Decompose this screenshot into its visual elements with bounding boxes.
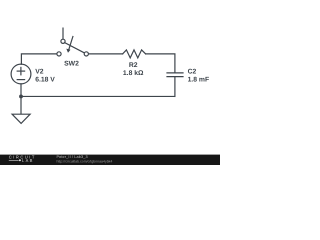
svg-text:V2: V2 — [35, 69, 44, 76]
switch SW2 left terminal circle — [57, 52, 61, 56]
wire: V2 bottom to junction — [20, 84, 22, 97]
switch SW2 arrowhead — [66, 49, 70, 53]
switch SW2 blade — [65, 43, 85, 53]
svg-text:http://circuitlab.com/c/tgbnna: http://circuitlab.com/c/tgbnnaa4y5k4 — [57, 160, 113, 164]
watermark bar — [0, 155, 220, 165]
svg-text:1.8 mF: 1.8 mF — [188, 77, 210, 84]
switch SW2 stub — [62, 28, 64, 39]
junction dot — [19, 95, 23, 99]
switch SW2 actuation arrow — [69, 37, 73, 50]
V2 minus sign — [17, 79, 24, 81]
wire bottom — [21, 95, 175, 97]
svg-text:R2: R2 — [129, 62, 138, 69]
svg-text:SW2: SW2 — [64, 61, 79, 68]
wire top-left: left rail to switch left terminal — [21, 54, 56, 64]
svg-text:1.8 kΩ: 1.8 kΩ — [123, 70, 144, 77]
switch SW2 top terminal circle — [61, 39, 65, 43]
wire: capacitor bottom to bottom-right corner — [174, 77, 176, 97]
wire: switch right terminal to resistor — [89, 53, 123, 55]
svg-text:6.18 V: 6.18 V — [35, 77, 55, 84]
logo mark dot — [19, 159, 21, 161]
switch SW2 right terminal circle — [84, 52, 88, 56]
voltage source V2 circle — [11, 64, 31, 84]
logo underline — [9, 159, 19, 161]
wire: resistor to top-right corner, down to capacitor — [146, 54, 175, 73]
svg-text:LAB: LAB — [22, 158, 34, 163]
resistor R2 — [123, 50, 146, 58]
ground — [12, 114, 30, 123]
capacitor C2 plates — [167, 72, 183, 74]
svg-text:C2: C2 — [188, 69, 197, 76]
V2 plus sign — [17, 70, 24, 72]
wire: junction to ground — [20, 96, 22, 114]
